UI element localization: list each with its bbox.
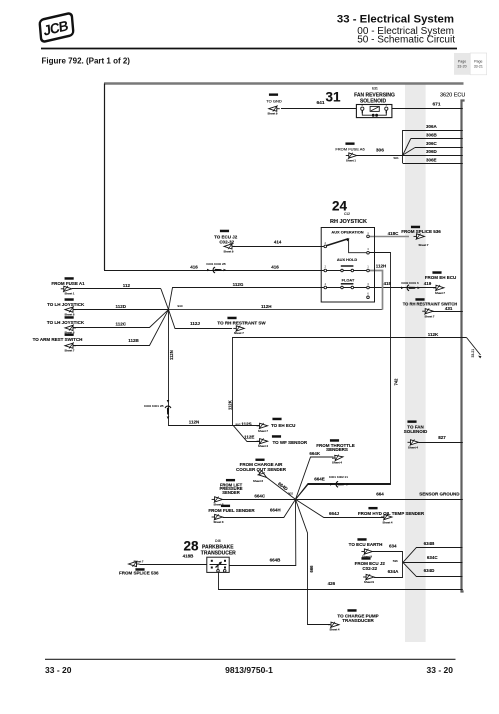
svg-text:666: 666 xyxy=(309,565,314,573)
svg-text:Sheet 9: Sheet 9 xyxy=(224,249,234,253)
svg-text:306E: 306E xyxy=(426,157,437,162)
svg-text:Figure 792. (Part 1 of 2): Figure 792. (Part 1 of 2) xyxy=(42,57,131,66)
svg-text:C12: C12 xyxy=(344,212,350,216)
svg-text:634B: 634B xyxy=(424,541,436,546)
svg-text:Sheet 9: Sheet 9 xyxy=(364,580,374,584)
svg-text:536: 536 xyxy=(393,559,398,563)
svg-text:50 - Schematic Circuit: 50 - Schematic Circuit xyxy=(357,35,455,46)
svg-text:2: 2 xyxy=(325,264,327,268)
svg-text:SOLENOID: SOLENOID xyxy=(360,99,387,105)
svg-text:664B: 664B xyxy=(270,558,282,563)
svg-text:33 - 20: 33 - 20 xyxy=(427,665,454,675)
svg-text:C46: C46 xyxy=(215,539,221,543)
svg-text:TO RH RESTRANT SW: TO RH RESTRANT SW xyxy=(217,320,266,325)
svg-text:112K: 112K xyxy=(428,332,439,337)
svg-text:TO LH JOYSTICK: TO LH JOYSTICK xyxy=(47,302,85,307)
svg-text:K002 K001 6: K002 K001 6 xyxy=(401,281,419,285)
svg-text:FROM HYD OIL TEMP SENDER: FROM HYD OIL TEMP SENDER xyxy=(358,511,425,516)
svg-text:Sheet 7: Sheet 7 xyxy=(65,349,75,353)
svg-text:306A: 306A xyxy=(426,124,438,129)
svg-text:112B: 112B xyxy=(128,338,139,343)
svg-text:Page: Page xyxy=(474,60,482,64)
svg-text:664: 664 xyxy=(376,492,384,497)
svg-text:414: 414 xyxy=(274,239,282,244)
svg-text:TO RH RESTRAINT SWITCH: TO RH RESTRAINT SWITCH xyxy=(403,302,458,307)
svg-text:827: 827 xyxy=(438,435,446,440)
svg-text:K001 K002 2B: K001 K002 2B xyxy=(206,262,225,266)
svg-text:S01: S01 xyxy=(393,156,399,160)
svg-text:Sheet 1: Sheet 1 xyxy=(346,159,356,163)
svg-text:664E: 664E xyxy=(314,477,325,482)
svg-text:SENDERS: SENDERS xyxy=(326,447,348,452)
svg-text:Sheet 4: Sheet 4 xyxy=(258,444,268,448)
svg-text:FROM FUEL SENDER: FROM FUEL SENDER xyxy=(208,508,255,513)
svg-text:Sheet 7: Sheet 7 xyxy=(419,243,429,247)
svg-text:306: 306 xyxy=(376,148,384,154)
svg-text:Sheet 1: Sheet 1 xyxy=(65,292,75,296)
svg-text:431: 431 xyxy=(445,306,453,311)
svg-text:TO EH ECU: TO EH ECU xyxy=(271,423,295,428)
svg-text:28: 28 xyxy=(183,539,199,554)
svg-text:K001 K002 21: K001 K002 21 xyxy=(329,475,348,479)
svg-text:664J: 664J xyxy=(329,511,340,516)
svg-text:1: 1 xyxy=(367,231,369,235)
svg-text:33-20: 33-20 xyxy=(457,65,466,69)
svg-text:671: 671 xyxy=(432,101,440,107)
svg-text:Sheet 4: Sheet 4 xyxy=(332,461,342,465)
svg-text:4: 4 xyxy=(325,282,327,286)
svg-text:33 - Electrical System: 33 - Electrical System xyxy=(337,14,454,26)
svg-text:SENDER: SENDER xyxy=(222,490,239,495)
svg-text:AUX OPERATION: AUX OPERATION xyxy=(331,229,363,234)
svg-text:K002 K001 2B: K002 K001 2B xyxy=(144,404,163,408)
svg-text:SOLENOID: SOLENOID xyxy=(404,429,428,434)
svg-text:TO LH JOYSTICK: TO LH JOYSTICK xyxy=(47,320,85,325)
svg-text:634D: 634D xyxy=(424,568,436,573)
svg-text:634C: 634C xyxy=(427,555,439,560)
svg-text:Sheet 9: Sheet 9 xyxy=(362,555,372,559)
svg-text:902: 902 xyxy=(235,422,240,426)
svg-text:3620 ECU: 3620 ECU xyxy=(440,93,465,99)
svg-text:Sheet 7: Sheet 7 xyxy=(425,315,435,319)
svg-text:33-21: 33-21 xyxy=(474,65,483,69)
svg-text:112H: 112H xyxy=(261,304,272,309)
svg-text:FLOAT: FLOAT xyxy=(342,277,355,282)
svg-text:TO GND: TO GND xyxy=(266,99,282,104)
svg-text:1: 1 xyxy=(367,264,369,268)
svg-text:31: 31 xyxy=(325,90,341,105)
svg-text:33 - 20: 33 - 20 xyxy=(45,665,72,675)
svg-text:426: 426 xyxy=(328,581,336,586)
svg-text:SENSOR GROUND: SENSOR GROUND xyxy=(419,492,460,497)
svg-text:112N: 112N xyxy=(189,419,200,424)
svg-text:3: 3 xyxy=(367,247,369,251)
svg-text:112H: 112H xyxy=(376,263,387,268)
svg-text:664C: 664C xyxy=(254,494,266,499)
svg-text:112N: 112N xyxy=(169,350,174,360)
svg-text:112K: 112K xyxy=(227,400,232,410)
svg-text:940: 940 xyxy=(178,304,183,308)
svg-text:306B: 306B xyxy=(426,132,438,137)
svg-text:C02-22: C02-22 xyxy=(362,566,377,571)
svg-text:Sheet 4: Sheet 4 xyxy=(330,628,340,632)
svg-text:418B: 418B xyxy=(183,554,195,559)
svg-text:Sheet 4: Sheet 4 xyxy=(383,521,393,525)
svg-text:TO WF SENSOR: TO WF SENSOR xyxy=(273,440,308,445)
svg-text:416: 416 xyxy=(190,264,198,269)
svg-text:Sheet 4: Sheet 4 xyxy=(408,446,418,450)
svg-text:TRANSDUCER: TRANSDUCER xyxy=(342,618,374,623)
svg-text:Sheet 9: Sheet 9 xyxy=(268,112,278,116)
svg-text:Sheet 3: Sheet 3 xyxy=(253,479,263,483)
svg-text:664H: 664H xyxy=(270,508,281,513)
svg-text:33-21: 33-21 xyxy=(471,349,475,358)
svg-text:TO ARM REST SWITCH: TO ARM REST SWITCH xyxy=(33,337,83,342)
svg-text:9813/9750-1: 9813/9750-1 xyxy=(225,665,273,675)
svg-text:Sheet 7: Sheet 7 xyxy=(134,559,144,563)
svg-text:Sheet 7: Sheet 7 xyxy=(435,291,445,295)
svg-text:112S: 112S xyxy=(241,421,251,426)
svg-text:Sheet 5: Sheet 5 xyxy=(65,312,75,316)
svg-text:6: 6 xyxy=(367,292,369,296)
svg-text:Page: Page xyxy=(458,60,466,64)
svg-text:Sheet 3: Sheet 3 xyxy=(214,502,224,506)
svg-text:416: 416 xyxy=(271,264,279,269)
svg-text:902: 902 xyxy=(288,492,293,496)
svg-text:FROM FUSE A1: FROM FUSE A1 xyxy=(51,281,85,286)
svg-text:Sheet 3: Sheet 3 xyxy=(214,520,224,524)
svg-text:TO ECU EARTH: TO ECU EARTH xyxy=(349,542,383,547)
svg-text:FROM FUSE A6: FROM FUSE A6 xyxy=(335,147,365,152)
svg-text:306D: 306D xyxy=(426,149,438,154)
svg-text:3: 3 xyxy=(367,282,369,286)
svg-text:112D: 112D xyxy=(116,304,127,309)
svg-text:C02-32: C02-32 xyxy=(219,240,234,245)
svg-text:419: 419 xyxy=(424,281,432,286)
svg-text:Sheet 7: Sheet 7 xyxy=(258,429,268,433)
svg-text:TRANSDUCER: TRANSDUCER xyxy=(201,551,236,557)
svg-text:664K: 664K xyxy=(309,451,321,456)
svg-text:FROM EH ECU: FROM EH ECU xyxy=(425,275,457,280)
svg-text:AUX HOLD: AUX HOLD xyxy=(337,257,358,262)
svg-text:112E: 112E xyxy=(244,435,254,440)
svg-text:COOLER OUT SENDER: COOLER OUT SENDER xyxy=(236,467,287,472)
svg-text:418: 418 xyxy=(384,281,392,286)
svg-text:634: 634 xyxy=(389,543,397,548)
svg-text:FROM SPLICE 536: FROM SPLICE 536 xyxy=(401,229,441,234)
svg-text:2: 2 xyxy=(325,241,327,245)
svg-text:FROM SPLICE 536: FROM SPLICE 536 xyxy=(119,571,159,576)
svg-text:112C: 112C xyxy=(116,322,127,327)
svg-text:112J: 112J xyxy=(190,321,200,326)
svg-text:Sheet 5: Sheet 5 xyxy=(65,331,75,335)
svg-text:Sheet 7: Sheet 7 xyxy=(234,331,244,335)
svg-text:E31: E31 xyxy=(372,87,378,91)
svg-text:RH JOYSTICK: RH JOYSTICK xyxy=(330,219,367,225)
svg-text:112G: 112G xyxy=(233,282,244,287)
svg-text:112: 112 xyxy=(123,283,131,288)
svg-text:641: 641 xyxy=(316,100,324,106)
svg-text:306C: 306C xyxy=(426,141,438,146)
svg-text:634A: 634A xyxy=(388,569,400,574)
svg-text:418C: 418C xyxy=(388,231,400,236)
svg-text:742: 742 xyxy=(393,378,398,386)
